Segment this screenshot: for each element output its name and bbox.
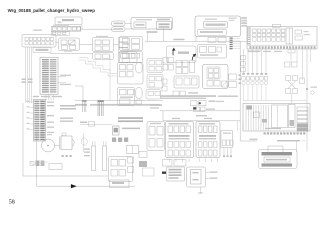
X8 CPU slot	[289, 105, 296, 128]
X8 left column marks	[247, 106, 253, 110]
terminal block X5	[40, 57, 58, 94]
label above motor	[47, 132, 54, 133]
coupling	[55, 145, 60, 147]
stacked contacts right of A5	[229, 74, 237, 80]
wire pills to PSU box	[125, 23, 131, 25]
resistor R2 vertical	[103, 146, 107, 171]
A7 bottom strip	[110, 180, 130, 188]
relay sub-bank below A4	[174, 76, 199, 88]
wire to relay	[80, 123, 113, 125]
bus center horizontal pair	[160, 110, 240, 112]
K13 top label	[150, 123, 161, 124]
interlock module A5	[203, 65, 229, 89]
A7 side contact	[128, 157, 134, 163]
PLC lower wire marks	[248, 51, 261, 53]
manual override arrow up-right	[192, 55, 194, 60]
X8 left wire columns	[245, 105, 247, 131]
bus label above A4	[174, 39, 185, 41]
wire left drop	[23, 103, 108, 176]
resistor R1 vertical	[92, 146, 96, 171]
gauge cluster bottom left	[30, 162, 34, 166]
transformer T2	[127, 146, 139, 154]
collect bus lower right	[243, 100, 307, 102]
solenoid block Y3	[187, 167, 206, 187]
solenoid coil Y1	[136, 63, 142, 74]
relay K1 contact group	[59, 38, 80, 51]
sensor wires right	[290, 49, 292, 62]
right edge short wire	[310, 49, 312, 62]
relay K4 contact group	[120, 37, 143, 51]
terminal block X5 right column	[50, 59, 57, 60]
Y3 labels right	[206, 172, 210, 174]
X8 bottom terminal labels	[264, 132, 266, 134]
relay K5 contact group	[120, 52, 143, 63]
label A1 right	[229, 18, 237, 19]
dark mark pointer	[193, 107, 196, 109]
terminal strip X2	[52, 26, 81, 31]
wires under X5	[45, 94, 47, 100]
wire tag cluster right of bundle B	[150, 104, 162, 106]
wire bundle drop B ribbon	[97, 101, 99, 117]
crossover component in A5	[222, 81, 228, 87]
wire stub X5 lower	[58, 82, 66, 84]
contact column K12	[146, 90, 161, 100]
bus top center	[145, 41, 247, 43]
note arrow	[162, 172, 166, 174]
wire bundle drop A	[82, 101, 84, 113]
flow arrow line	[37, 185, 135, 187]
power supply unit T1	[55, 17, 82, 25]
wire labels A1 to PLC	[241, 18, 248, 20]
contact pair column left of mode box	[163, 58, 168, 64]
wire drop with loop	[82, 133, 84, 152]
wires bank legs	[169, 159, 171, 163]
solenoid coil Y2	[136, 88, 142, 99]
filter box	[49, 164, 62, 170]
flow arrowhead	[71, 184, 77, 188]
bus mid-left lower	[75, 100, 163, 102]
signal pill S2	[112, 27, 126, 32]
24VDC power supply U2	[131, 18, 173, 30]
pin marks beside bus	[239, 75, 241, 76]
contact group K13	[147, 122, 165, 151]
PLC top connector	[273, 24, 281, 27]
wire staircase to valve cluster	[79, 58, 118, 74]
contact column K11	[147, 75, 163, 89]
valve relay group K6	[119, 52, 138, 63]
contact pair left of A4	[162, 79, 167, 84]
pin tick column right	[230, 38, 233, 39]
small relay with indicator	[113, 126, 120, 135]
pressure valve cluster center	[191, 101, 198, 106]
wire stub X5 upper	[58, 76, 66, 78]
aux contact pair under A1	[208, 37, 216, 42]
main controller A1	[195, 16, 241, 37]
junction dot right wire	[306, 88, 308, 90]
label row under X5	[33, 96, 39, 97]
wire U2 down	[147, 33, 149, 42]
pump control box A7	[109, 157, 133, 182]
svg-text:Wrg_00188_pallet_changer_hydro: Wrg_00188_pallet_changer_hydro_sweep	[8, 8, 96, 13]
aux box right of B7	[300, 78, 305, 84]
PLC left terminal strip	[248, 28, 251, 46]
wire bus top-left	[80, 28, 121, 30]
cable tag text row	[90, 104, 160, 106]
vertical bus x240 right center	[239, 42, 241, 142]
left label and box	[80, 122, 87, 123]
PLC input channel columns	[253, 29, 257, 32]
wire pump drop	[36, 132, 38, 187]
wire bundle labels	[22, 79, 27, 80]
pushbutton squares	[112, 138, 116, 142]
manual override arrow up	[172, 50, 175, 56]
right edge long wire	[306, 49, 308, 152]
tank dots	[62, 155, 64, 157]
note text row	[122, 128, 140, 130]
vertical bus x163	[163, 28, 165, 42]
terminal row X4	[33, 48, 51, 53]
hydraulic unit feed legs	[267, 146, 269, 152]
cable tag rows right of X6	[60, 105, 76, 107]
contact column K10	[147, 59, 163, 73]
signal pill S1	[112, 21, 126, 26]
relay boxes A4 area	[176, 61, 182, 67]
diode module V1 column	[119, 37, 129, 42]
pressure switches B1-B6 row	[242, 73, 245, 74]
motor M1	[42, 139, 55, 152]
terminal strip X3	[52, 32, 70, 36]
hydraulic power unit HPU	[259, 150, 298, 169]
X6 left tick labels	[30, 101, 34, 103]
X9 legs	[223, 148, 225, 158]
label under cluster	[196, 115, 207, 116]
PLC bottom terminal row	[248, 44, 317, 46]
aux box row 1	[163, 160, 173, 167]
vertical bus x196	[195, 36, 197, 41]
PLC output wires down	[243, 49, 245, 73]
mode select box A4 with arrows	[167, 46, 197, 63]
legend box	[167, 167, 185, 181]
valve relay group K7	[118, 88, 135, 106]
instruction text block	[118, 117, 143, 119]
label 24V dc	[147, 31, 158, 33]
selector cluster right of A4	[198, 45, 227, 59]
hydraulic unit label	[277, 140, 300, 141]
input contact pair top	[285, 62, 291, 67]
valve terminal box X8	[243, 104, 310, 132]
relay K2 contact group	[93, 38, 114, 52]
PLC CPU module	[286, 28, 293, 44]
relay K3 contact group	[93, 53, 114, 60]
PLC aux module	[295, 30, 302, 34]
svg-text:58: 58	[9, 200, 15, 206]
wires bus to X8 bottom	[237, 121, 239, 131]
bus wire number labels	[172, 118, 180, 119]
fuse block F1 group	[22, 35, 56, 48]
left wire of valve cluster	[109, 55, 111, 101]
relay boxes bottom of A4	[173, 91, 179, 96]
terminal box X9	[221, 131, 233, 148]
hydraulic pump P1	[59, 137, 61, 150]
wire stub K1 left	[56, 42, 59, 44]
A1 lower display box	[198, 30, 227, 36]
PLC I/O rack A3	[247, 26, 317, 49]
aux box row 2	[174, 160, 186, 167]
X6 right wire labels	[47, 102, 54, 103]
X8 inner panel	[272, 105, 288, 128]
Y3 ground leg	[200, 187, 202, 193]
sensor label right	[311, 87, 318, 88]
solenoid valve Y1 group	[118, 63, 144, 85]
X8 stacked modules	[297, 107, 308, 110]
wires pins to PLC	[233, 38, 241, 40]
crossover switch B7	[286, 76, 291, 81]
contact box right of T2	[139, 152, 147, 158]
wire from bus to hydraulic unit	[240, 140, 257, 142]
right edge pin column	[241, 56, 246, 60]
terminal block X6 dense strip	[34, 100, 46, 142]
fuse tag rows	[84, 149, 90, 150]
valve driver bank A9	[196, 122, 220, 158]
terminal block X5 left column	[42, 59, 49, 60]
legend text row	[160, 95, 216, 97]
U2 right sub panel	[157, 19, 170, 21]
wire loop left	[75, 86, 83, 101]
valve driver bank A8	[166, 122, 194, 158]
wire bundle left riser	[25, 47, 27, 103]
